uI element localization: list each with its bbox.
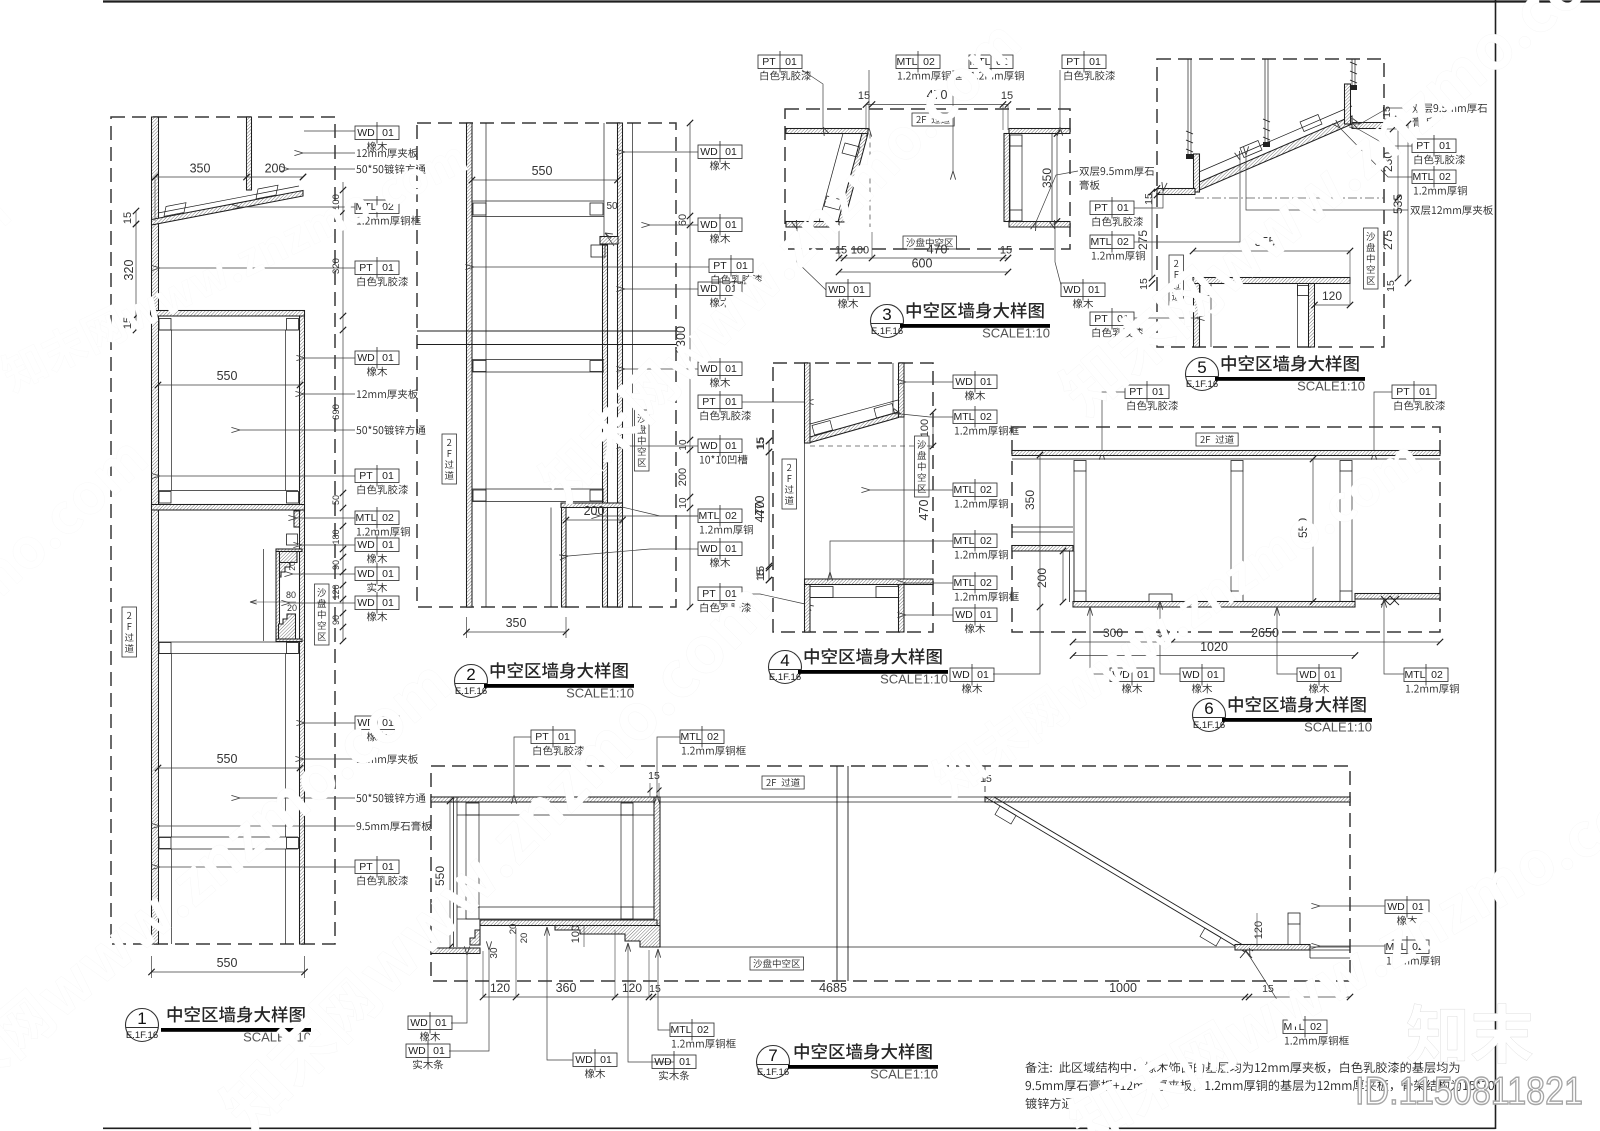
d7 bottom-left labels: [408, 1016, 452, 1030]
d5 title stamp: [1186, 358, 1219, 391]
svg-text:50: 50: [606, 201, 618, 212]
svg-text:50: 50: [331, 495, 341, 505]
d5 sloped ceiling: [1195, 116, 1352, 192]
d3 atrium tag: [903, 236, 957, 249]
d2 right dim 470: [768, 441, 770, 580]
svg-text:15: 15: [755, 438, 767, 450]
svg-text:E.1F.16: E.1F.16: [769, 672, 801, 683]
svg-text:100: 100: [919, 419, 931, 437]
svg-text:WD: WD: [700, 283, 718, 295]
svg-text:1: 1: [137, 1009, 146, 1028]
d7 top band: [431, 797, 657, 802]
svg-text:120: 120: [1253, 921, 1265, 939]
svg-text:PT: PT: [359, 861, 373, 873]
svg-text:01: 01: [1207, 669, 1219, 681]
d7 top labels: [531, 730, 575, 744]
svg-text:10: 10: [678, 439, 689, 451]
svg-text:WD: WD: [357, 352, 375, 364]
d6 bottom dims: [1073, 641, 1440, 643]
svg-text:690: 690: [331, 404, 342, 420]
svg-text:E.1F.16: E.1F.16: [1193, 720, 1225, 731]
svg-text:7: 7: [768, 1046, 777, 1065]
detail view 6 boundary: [1012, 427, 1440, 632]
watermark tiles: [0, 136, 470, 395]
svg-text:15: 15: [1385, 280, 1397, 292]
svg-text:ID.1150811821: ID.1150811821: [1355, 1070, 1583, 1113]
svg-text:MTL: MTL: [1413, 171, 1434, 183]
svg-text:01: 01: [725, 543, 737, 555]
d2 right dim 1300: [689, 123, 691, 607]
d2 blocking row C: [472, 488, 604, 490]
svg-text:MTL: MTL: [954, 577, 975, 589]
d3 top bands: [786, 129, 868, 134]
svg-text:20: 20: [508, 924, 519, 935]
svg-text:01: 01: [435, 1017, 447, 1029]
d4 dims left: [768, 441, 770, 580]
svg-text:01: 01: [382, 262, 394, 274]
svg-text:02: 02: [923, 56, 935, 68]
d1 right dim column: [342, 182, 344, 330]
svg-text:02: 02: [707, 731, 719, 743]
svg-text:2650: 2650: [1251, 626, 1279, 640]
svg-text:WD: WD: [952, 669, 970, 681]
svg-text:WD: WD: [357, 539, 375, 551]
svg-text:PT: PT: [702, 588, 716, 600]
svg-text:02: 02: [1117, 236, 1129, 248]
svg-text:02: 02: [980, 484, 992, 496]
d3 bottom bands: [786, 222, 839, 228]
svg-text:550: 550: [433, 866, 447, 886]
svg-text:01: 01: [1117, 202, 1129, 214]
svg-text:4: 4: [780, 651, 789, 670]
svg-text:01: 01: [1088, 284, 1100, 296]
svg-text:15: 15: [858, 90, 870, 102]
svg-text:01: 01: [382, 861, 394, 873]
svg-text:350: 350: [1023, 490, 1037, 510]
d6 ceiling band: [1012, 451, 1440, 456]
d5 right dims: [1397, 124, 1399, 198]
svg-text:2: 2: [466, 665, 475, 684]
svg-text:MTL: MTL: [671, 1024, 692, 1036]
d6 550 dim: [1312, 459, 1314, 602]
svg-text:01: 01: [382, 352, 394, 364]
svg-text:60: 60: [677, 214, 689, 226]
svg-text:MTL: MTL: [699, 510, 720, 522]
svg-text:350: 350: [506, 616, 527, 630]
svg-text:E.1F.16: E.1F.16: [455, 686, 487, 697]
svg-text:01: 01: [725, 440, 737, 452]
d4 title stamp: [769, 651, 802, 684]
d6 label row: [950, 668, 994, 682]
svg-text:WD: WD: [1063, 284, 1081, 296]
detail view 7 boundary: [431, 766, 1350, 981]
svg-text:01: 01: [725, 363, 737, 375]
svg-text:WD: WD: [700, 146, 718, 158]
d1 walls: [152, 117, 159, 944]
d5 left dims: [1151, 192, 1153, 278]
svg-text:WD: WD: [1387, 901, 1405, 913]
d7 right labels: [1385, 900, 1429, 914]
svg-text:01: 01: [725, 219, 737, 231]
d4 tags: [782, 459, 797, 509]
svg-text:E.1F.16: E.1F.16: [126, 1030, 158, 1041]
svg-text:02: 02: [980, 411, 992, 423]
svg-text:15: 15: [755, 569, 767, 581]
svg-text:02: 02: [1310, 1021, 1322, 1033]
d2 callout labels: [698, 145, 742, 159]
d5 left end: [1194, 154, 1200, 192]
svg-text:275: 275: [1136, 230, 1150, 250]
svg-text:120: 120: [1322, 289, 1342, 303]
d2 blocking row B: [472, 359, 604, 361]
svg-text:SCALE1:10: SCALE1:10: [880, 672, 948, 687]
d4 interior faces: [804, 443, 806, 579]
svg-text:WD: WD: [575, 1054, 593, 1066]
svg-text:10: 10: [678, 497, 689, 509]
d2 floor slab: [417, 330, 676, 332]
svg-text:SCALE1:10: SCALE1:10: [982, 326, 1050, 341]
d1 recess structure: [294, 511, 300, 527]
svg-text:02: 02: [980, 577, 992, 589]
svg-text:275: 275: [1381, 230, 1395, 250]
d7 title stamp: [757, 1046, 790, 1079]
svg-text:01: 01: [736, 260, 748, 272]
svg-text:120: 120: [331, 584, 341, 599]
svg-text:02: 02: [980, 535, 992, 547]
svg-text:02: 02: [1439, 171, 1451, 183]
svg-text:PT: PT: [1066, 56, 1080, 68]
d3 corridor tag: [912, 113, 954, 126]
detail view 5 boundary: [1157, 59, 1384, 347]
detail view 1 boundary: [111, 117, 335, 944]
d7 bottom dims: [483, 996, 1350, 998]
svg-text:550: 550: [532, 164, 553, 178]
d3 title stamp: [871, 305, 904, 338]
svg-text:01: 01: [1419, 386, 1431, 398]
svg-text:SCALE1:10: SCALE1:10: [1304, 720, 1372, 735]
svg-text:02: 02: [725, 510, 737, 522]
svg-text:6: 6: [1204, 699, 1213, 718]
svg-text:100: 100: [570, 925, 582, 943]
svg-text:MTL: MTL: [356, 512, 377, 524]
svg-text:WD: WD: [955, 609, 973, 621]
svg-text:15: 15: [835, 245, 847, 257]
svg-text:01: 01: [433, 1045, 445, 1057]
d1 row at 642: [159, 643, 171, 654]
svg-text:MTL: MTL: [681, 731, 702, 743]
svg-text:MTL: MTL: [954, 535, 975, 547]
svg-text:200: 200: [265, 162, 286, 176]
d5 lower structure: [1193, 278, 1350, 284]
svg-text:470: 470: [753, 502, 767, 523]
svg-text:01: 01: [725, 146, 737, 158]
d2 blocking row A: [472, 200, 604, 202]
d1 callout labels mid: [355, 351, 399, 365]
svg-text:20: 20: [519, 933, 530, 944]
d7 column: [836, 766, 838, 981]
svg-text:15: 15: [649, 983, 661, 995]
d5 centerline: [1195, 197, 1384, 199]
d1 2F corridor tag: [122, 607, 137, 657]
svg-text:01: 01: [382, 470, 394, 482]
svg-text:01: 01: [382, 568, 394, 580]
svg-text:80: 80: [286, 590, 296, 600]
d3 bottom labels: [826, 283, 870, 297]
d7 left cabinet: [453, 797, 455, 947]
svg-text:WD: WD: [1299, 669, 1317, 681]
svg-text:120: 120: [622, 981, 642, 995]
svg-text:PT: PT: [535, 731, 549, 743]
svg-text:SCALE1:10: SCALE1:10: [566, 686, 634, 701]
svg-text:300: 300: [1103, 626, 1123, 640]
svg-text:PT: PT: [359, 262, 373, 274]
d2 pt01 left leader: [709, 259, 753, 273]
svg-text:PT: PT: [1416, 140, 1430, 152]
svg-text:SCALE1:10: SCALE1:10: [870, 1067, 938, 1082]
svg-text:15: 15: [1262, 983, 1274, 995]
svg-text:90: 90: [331, 615, 341, 625]
svg-text:350: 350: [190, 162, 211, 176]
svg-text:PT: PT: [713, 260, 727, 272]
svg-text:PT: PT: [1396, 386, 1410, 398]
svg-text:01: 01: [785, 56, 797, 68]
svg-text:360: 360: [556, 981, 577, 995]
svg-text:4685: 4685: [819, 981, 847, 995]
d1 bottom dim: [151, 956, 153, 978]
d5 right labels: [1412, 104, 1487, 113]
svg-text:15: 15: [1001, 90, 1013, 102]
svg-text:MTL: MTL: [1405, 669, 1426, 681]
svg-text:20: 20: [287, 603, 297, 613]
d1 callout labels upper: [355, 126, 399, 140]
svg-text:01: 01: [382, 539, 394, 551]
d6 left step: [1012, 526, 1073, 528]
svg-text:5: 5: [1197, 358, 1206, 377]
d3 right wall: [1004, 134, 1010, 222]
svg-text:320: 320: [331, 258, 342, 274]
d1 row at 837: [159, 838, 171, 849]
d1 atrium tag: [315, 584, 330, 645]
svg-text:180: 180: [331, 529, 341, 544]
svg-text:WD: WD: [357, 568, 375, 580]
svg-text:01: 01: [977, 669, 989, 681]
d2 550 dim: [472, 179, 618, 181]
svg-text:01: 01: [980, 609, 992, 621]
svg-text:01: 01: [1412, 901, 1424, 913]
svg-text:01: 01: [725, 588, 737, 600]
svg-text:MTL: MTL: [897, 56, 918, 68]
d7 sandbox tag: [750, 957, 804, 970]
svg-text:3: 3: [882, 305, 891, 324]
d3 top dims: [866, 104, 1008, 106]
svg-text:WD: WD: [357, 127, 375, 139]
d7 bottom band + steps: [480, 920, 657, 926]
d4 bottom assembly: [805, 579, 934, 585]
d5 left labels: [1090, 201, 1134, 215]
d4 right labels: [953, 375, 997, 389]
svg-text:01: 01: [853, 284, 865, 296]
svg-text:E.1F.16: E.1F.16: [871, 326, 903, 337]
svg-text:PT: PT: [1094, 202, 1108, 214]
d2 bottom dim 350: [466, 617, 468, 638]
svg-text:WD: WD: [1182, 669, 1200, 681]
svg-text:15: 15: [648, 770, 660, 782]
svg-text:02: 02: [1431, 669, 1443, 681]
d3 centerline: [869, 134, 871, 228]
d1 title stamp: [126, 1009, 159, 1042]
d5 555 dim: [1193, 250, 1350, 252]
svg-text:WD: WD: [828, 284, 846, 296]
svg-text:01: 01: [1324, 669, 1336, 681]
detail view 2 boundary: [417, 123, 676, 607]
d1 callout labels lower: [355, 716, 399, 730]
svg-text:20: 20: [287, 561, 297, 571]
d7 diagonal brace: [985, 797, 1245, 952]
znzmo logo: [1407, 1004, 1532, 1064]
svg-text:01: 01: [558, 731, 570, 743]
svg-text:WD: WD: [357, 597, 375, 609]
svg-text:01: 01: [1152, 386, 1164, 398]
svg-text:01: 01: [679, 1056, 691, 1068]
d2 title stamp: [455, 665, 488, 698]
svg-text:WD: WD: [410, 1017, 428, 1029]
svg-text:PT: PT: [1129, 386, 1143, 398]
svg-text:MTL: MTL: [954, 484, 975, 496]
d2 walls: [467, 123, 473, 607]
d4 upper walls: [805, 363, 811, 443]
svg-text:470: 470: [917, 500, 931, 521]
svg-text:WD: WD: [700, 219, 718, 231]
svg-text:WD: WD: [700, 543, 718, 555]
border frame: [103, 0, 1600, 2]
svg-text:E.1F.16: E.1F.16: [757, 1067, 789, 1078]
svg-text:90: 90: [331, 560, 341, 570]
svg-text:E.1F.16: E.1F.16: [1186, 379, 1218, 390]
svg-text:MTL: MTL: [1091, 236, 1112, 248]
svg-text:WD: WD: [700, 440, 718, 452]
svg-text:550: 550: [217, 956, 238, 970]
svg-text:30: 30: [489, 947, 500, 959]
svg-text:01: 01: [725, 396, 737, 408]
svg-text:01: 01: [600, 1054, 612, 1066]
detail view 3 boundary: [785, 109, 1070, 249]
svg-text:01: 01: [382, 597, 394, 609]
svg-text:PT: PT: [359, 470, 373, 482]
d5 hanger rods: [1187, 59, 1189, 157]
svg-text:200: 200: [1035, 568, 1049, 588]
d2 bottom step: [561, 503, 623, 508]
d3 sloped wall: [838, 134, 868, 223]
svg-text:550: 550: [217, 752, 238, 766]
svg-text:01: 01: [1439, 140, 1451, 152]
svg-text:320: 320: [122, 260, 136, 281]
d3-5 between labels: [1079, 167, 1154, 176]
svg-text:WD: WD: [408, 1045, 426, 1057]
svg-text:15: 15: [1138, 278, 1150, 290]
svg-text:550: 550: [217, 369, 238, 383]
svg-text:100: 100: [331, 194, 342, 210]
svg-text:01: 01: [1089, 56, 1101, 68]
svg-text:600: 600: [912, 257, 933, 271]
d3 bottom dims: [839, 257, 1008, 259]
svg-text:SCALE1:10: SCALE1:10: [1297, 379, 1365, 394]
svg-text:PT: PT: [702, 396, 716, 408]
svg-text:02: 02: [697, 1024, 709, 1036]
d2 wall hook detail: [600, 237, 618, 245]
d6 top labels: [1125, 385, 1169, 399]
svg-text:100: 100: [851, 245, 869, 257]
d4 centerline: [810, 445, 933, 447]
svg-text:15: 15: [122, 212, 134, 224]
d6 title stamp: [1193, 699, 1226, 732]
notes text: [1025, 1062, 1459, 1074]
svg-text:01: 01: [980, 376, 992, 388]
d1 upper box blocking: [159, 319, 171, 331]
svg-text:01: 01: [1137, 669, 1149, 681]
svg-text:470: 470: [927, 243, 948, 257]
d5 tags: [1169, 255, 1184, 305]
svg-text:PT: PT: [762, 56, 776, 68]
d7 right cabinet: [1235, 945, 1310, 951]
svg-text:02: 02: [382, 512, 394, 524]
d1 dims top: [155, 176, 303, 178]
svg-text:MTL: MTL: [954, 411, 975, 423]
d5 right end: [1345, 84, 1351, 124]
svg-text:120: 120: [490, 981, 510, 995]
d3 top labels: [758, 55, 802, 69]
svg-text:PT: PT: [1094, 313, 1108, 325]
svg-text:WD: WD: [955, 376, 973, 388]
svg-text:1000: 1000: [1109, 981, 1137, 995]
d2 tags: [442, 434, 457, 484]
svg-text:WD: WD: [700, 363, 718, 375]
svg-text:1020: 1020: [1200, 640, 1228, 654]
d6 floor band: [1073, 602, 1355, 608]
d6 studs: [1074, 461, 1086, 472]
svg-text:200: 200: [677, 468, 689, 486]
detail view 4 boundary: [773, 363, 933, 632]
svg-text:01: 01: [382, 127, 394, 139]
